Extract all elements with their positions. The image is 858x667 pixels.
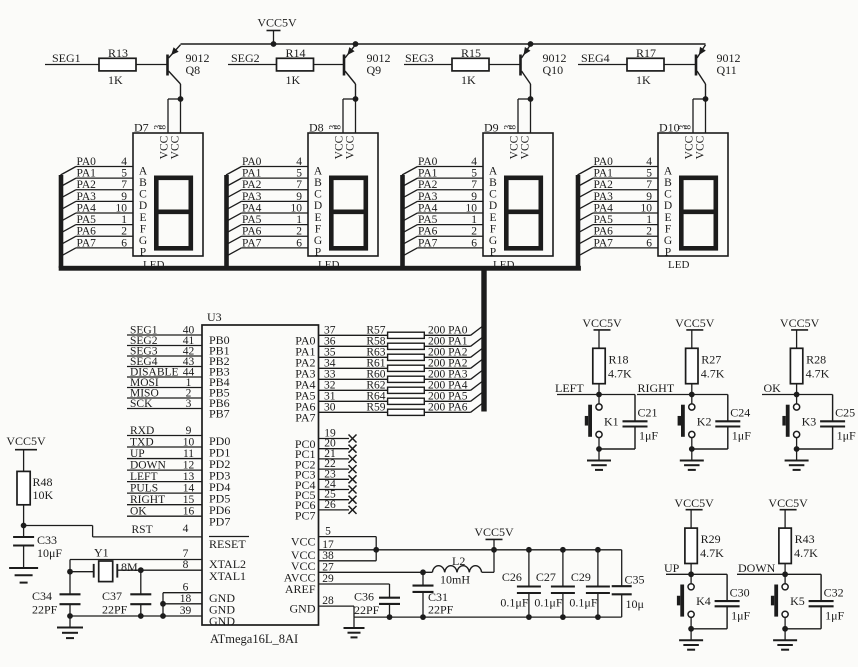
pin 18 GND [163, 603, 202, 605]
wire DOWN [737, 573, 821, 575]
svg-text:F: F [315, 223, 321, 235]
wire XTAL1 to crystal right [140, 570, 142, 594]
svg-text:VCC5V: VCC5V [257, 16, 297, 30]
switch K5 pushbutton [782, 584, 788, 590]
svg-text:C27: C27 [536, 570, 556, 584]
svg-text:6: 6 [121, 237, 127, 249]
wire R64 to bus / node 200 PA5 [424, 400, 470, 402]
wire slant PA2 to bus [471, 349, 482, 358]
svg-text:VCC: VCC [695, 135, 707, 159]
wire R61 to bus / node 200 PA2 [424, 367, 470, 369]
pin 33 (PA4) [319, 378, 388, 380]
junction dot C26 bottom [526, 614, 532, 620]
svg-text:G: G [489, 235, 497, 247]
svg-text:5: 5 [646, 168, 652, 180]
junction dot RST node [21, 523, 27, 529]
wire pin8 VCC (D10) [705, 99, 707, 133]
svg-text:1μF: 1μF [837, 429, 856, 443]
junction dot Q10 emitter on rail [528, 41, 534, 47]
wire PA3 to pin 9 (D10) [593, 200, 658, 202]
junction dot C34 rail [67, 613, 73, 619]
svg-text:10: 10 [641, 202, 653, 214]
wire rail to L2 [493, 550, 495, 573]
wire VCC5V to R29 [690, 510, 692, 528]
junction dot C27 bottom [560, 614, 566, 620]
pin 30 (PA7) [319, 411, 388, 413]
svg-text:4.7K: 4.7K [701, 366, 725, 380]
node MOSI / pin 1 (PB5) [127, 387, 202, 389]
wire R13 to Q8 base [136, 64, 167, 66]
wire PA7 to pin 6 (D8) [242, 247, 309, 249]
pin 22 (PC3) no-connect [319, 468, 350, 470]
svg-text:SEG4: SEG4 [581, 51, 610, 65]
svg-text:VCC5V: VCC5V [675, 316, 715, 330]
svg-text:10μF: 10μF [37, 546, 62, 560]
svg-text:K3: K3 [802, 414, 817, 428]
wire VCC5V to rail [273, 31, 275, 45]
svg-text:6: 6 [646, 237, 652, 249]
resistor R48 10K [17, 471, 30, 504]
capacitor C35 10u [621, 550, 623, 586]
svg-text:VCC5V: VCC5V [780, 316, 820, 330]
junction dot Q9 collector [353, 96, 359, 102]
svg-text:D8: D8 [309, 121, 324, 135]
bus PA vertical (D10) [576, 175, 581, 268]
wire R28 to node OK [796, 384, 798, 395]
svg-text:RESET: RESET [209, 537, 246, 551]
resistor R13 1K [99, 58, 136, 71]
svg-text:4: 4 [471, 156, 477, 168]
wire PA1 slant to bus (D10) [578, 178, 594, 187]
wire PA0 to pin 4 (D8) [242, 166, 309, 168]
wire PA1 to pin 5 (D10) [593, 177, 658, 179]
svg-text:7: 7 [296, 179, 302, 191]
wire R48 to RST node [23, 505, 25, 537]
svg-text:K1: K1 [604, 414, 619, 428]
wire PA4 to pin 10 (D10) [593, 212, 658, 214]
switch K2 pushbutton [689, 404, 695, 410]
svg-text:D10: D10 [659, 121, 680, 135]
wire VCC pins tie (D7) [168, 98, 181, 100]
wire PA2 slant to bus (D9) [402, 190, 418, 199]
junction dot crystal left [67, 569, 73, 575]
ground (K4) [690, 629, 692, 641]
svg-text:K5: K5 [790, 594, 805, 608]
pin 37 (PA0) [319, 334, 388, 336]
wire PA4 to pin 10 (D7) [76, 212, 133, 214]
svg-text:LED: LED [668, 259, 689, 271]
junction dot GND bracket pin39 [160, 613, 166, 619]
wire PA0 to pin 4 (D9) [418, 166, 484, 168]
svg-text:4: 4 [296, 156, 302, 168]
seven-segment glyph (D8) [331, 178, 366, 249]
wire VCC bracket [375, 537, 377, 561]
wire node to switch K5 [784, 574, 786, 583]
wire R18 to node LEFT [598, 384, 600, 395]
wire PA7 slant to bus (D7) [61, 248, 77, 257]
wire PA6 to pin 2 (D8) [242, 235, 309, 237]
svg-text:Q10: Q10 [543, 63, 564, 77]
svg-text:9: 9 [646, 191, 652, 203]
svg-text:K2: K2 [697, 414, 712, 428]
junction dot Q9 emitter on rail [353, 41, 359, 47]
wire pin3 VCC (D9) [517, 99, 519, 133]
wire ground rail (crystal) [69, 604, 71, 616]
svg-text:VCC: VCC [345, 135, 357, 159]
pin 35 (PA2) [319, 356, 388, 358]
pin 25 (PC6) no-connect [319, 499, 350, 501]
junction dot AVCC/C31 [420, 569, 426, 575]
wire PA2 to pin 7 (D8) [242, 189, 309, 191]
svg-text:SEG3: SEG3 [405, 51, 434, 65]
switch K3 pushbutton [794, 404, 800, 410]
ground (K5) [784, 629, 786, 641]
svg-text:10mH: 10mH [440, 573, 470, 587]
wire PA3 to pin 9 (D9) [418, 200, 484, 202]
wire VCC pins tie (D8) [343, 98, 356, 100]
svg-text:10K: 10K [33, 488, 54, 502]
svg-text:15: 15 [183, 494, 195, 506]
svg-text:LEFT: LEFT [555, 381, 584, 395]
display D7 box [133, 133, 203, 256]
svg-text:10μ: 10μ [626, 597, 644, 611]
junction dot K2 bottom [689, 446, 695, 452]
svg-text:2: 2 [121, 226, 127, 238]
wire PA7 slant to bus (D10) [578, 248, 594, 257]
wire PA4 slant to bus (D7) [61, 213, 77, 222]
svg-text:10: 10 [291, 202, 303, 214]
svg-text:L2: L2 [452, 554, 465, 568]
svg-text:28: 28 [322, 595, 334, 607]
svg-text:4: 4 [183, 523, 189, 535]
svg-text:E: E [314, 212, 321, 224]
svg-text:R48: R48 [33, 475, 53, 489]
transistor Q9 9012 PNP [343, 55, 346, 76]
junction dot Q11 collector [703, 96, 709, 102]
wire PA5 to pin 1 (D7) [76, 224, 133, 226]
svg-text:P: P [665, 247, 671, 259]
svg-text:A: A [139, 165, 148, 177]
junction dot C31 rail [420, 614, 426, 620]
svg-text:C36: C36 [354, 590, 374, 604]
svg-text:E: E [139, 212, 146, 224]
pin 23 (PC4) no-connect [319, 478, 350, 480]
capacitor C37 22PF [130, 593, 151, 595]
wire node to switch K2 [691, 395, 693, 404]
svg-text:R29: R29 [701, 532, 721, 546]
wire K4 to ground [690, 618, 692, 629]
svg-text:RIGHT: RIGHT [638, 381, 675, 395]
svg-text:D: D [314, 200, 322, 212]
svg-text:8: 8 [334, 125, 344, 130]
junction dot C26 top [526, 547, 532, 553]
svg-text:VCC: VCC [291, 535, 316, 549]
node MISO / pin 2 (PB6) [127, 397, 202, 399]
svg-text:22PF: 22PF [102, 603, 128, 617]
wire pin27 AVCC to L2 [319, 571, 433, 573]
svg-text:1: 1 [646, 214, 652, 226]
wire UP [666, 573, 727, 575]
capacitor C26 0.1μF [528, 550, 530, 587]
junction dot C27 top [560, 547, 566, 553]
wire PA4 to pin 10 (D9) [418, 212, 484, 214]
svg-text:R18: R18 [609, 352, 629, 366]
svg-text:D9: D9 [484, 121, 499, 135]
node DISABLE / pin 44 (PB4) [127, 376, 202, 378]
wire PA2 to pin 7 (D9) [418, 189, 484, 191]
svg-text:E: E [664, 212, 671, 224]
node RXD / pin 9 (PD0) [127, 435, 202, 437]
wire pin3 VCC (D8) [342, 99, 344, 133]
wire PA2 slant to bus (D7) [61, 190, 77, 199]
pin 36 (PA1) [319, 345, 388, 347]
junction dot C37 rail [138, 613, 144, 619]
svg-text:1μF: 1μF [731, 608, 750, 622]
svg-text:DOWN: DOWN [130, 460, 166, 472]
svg-text:PA7: PA7 [295, 411, 315, 425]
junction dot Q8 collector [178, 96, 184, 102]
wire PA1 to pin 5 (D9) [418, 177, 484, 179]
switch K4 pushbutton [688, 584, 694, 590]
svg-text:XTAL1: XTAL1 [209, 569, 246, 583]
capacitor C33 10uF [13, 536, 34, 538]
svg-text:2: 2 [296, 226, 302, 238]
wire SEG1 to R13 [45, 64, 99, 66]
svg-text:C: C [314, 189, 322, 201]
svg-text:VCC5V: VCC5V [768, 496, 808, 510]
svg-text:2: 2 [646, 226, 652, 238]
svg-text:9: 9 [186, 425, 192, 437]
svg-text:D: D [664, 200, 672, 212]
power rail VCC5V (top) [181, 43, 706, 45]
wire PA6 to pin 2 (D7) [76, 235, 133, 237]
svg-text:1K: 1K [636, 73, 651, 87]
wire K2 to ground [691, 438, 693, 449]
node SEG3 / pin 42 (PB2) [127, 355, 202, 357]
wire RIGHT [637, 394, 728, 396]
wire PA5 slant to bus (D9) [402, 225, 418, 234]
bus PA vertical (D8) [224, 175, 229, 268]
wire R59 to bus / node 200 PA6 [424, 411, 470, 413]
svg-text:12: 12 [183, 460, 195, 472]
wire R27 to node RIGHT [691, 384, 693, 395]
wire slant PA5 to bus [471, 393, 482, 402]
svg-text:2: 2 [471, 226, 477, 238]
svg-text:C: C [664, 189, 672, 201]
svg-text:11: 11 [183, 448, 194, 460]
svg-text:LEFT: LEFT [130, 471, 157, 483]
wire PA4 slant to bus (D9) [402, 213, 418, 222]
junction dot Q10 collector [528, 96, 534, 102]
svg-text:22PF: 22PF [354, 603, 380, 617]
wire PA0 slant to bus (D9) [402, 167, 418, 176]
wire PA0 to pin 4 (D10) [593, 166, 658, 168]
wire R17 to Q11 base [664, 64, 695, 66]
svg-text:SCK: SCK [130, 398, 153, 410]
svg-text:VCC: VCC [520, 135, 532, 159]
wire slant PA6 to bus [471, 404, 482, 413]
svg-text:G: G [664, 235, 672, 247]
resistor R28 4.7K [790, 348, 802, 383]
wire pin17 VCC [319, 549, 377, 551]
svg-text:R43: R43 [795, 532, 815, 546]
svg-text:C37: C37 [102, 589, 122, 603]
wire OK [762, 394, 833, 396]
capacitor C27 0.1μF [562, 550, 564, 587]
bus PA vertical (D9) [400, 175, 405, 268]
svg-text:G: G [314, 235, 322, 247]
svg-text:C26: C26 [502, 570, 522, 584]
svg-text:R59: R59 [366, 401, 385, 413]
wire VCC5V to R28 [796, 330, 798, 348]
svg-text:8: 8 [159, 125, 169, 130]
wire node to switch K4 [690, 574, 692, 583]
svg-text:C: C [139, 189, 147, 201]
svg-text:RIGHT: RIGHT [130, 494, 165, 506]
wire K1 to ground [598, 438, 600, 449]
wire R62 to bus / node 200 PA4 [424, 389, 470, 391]
transistor Q8 9012 PNP [166, 55, 169, 76]
svg-text:A: A [489, 165, 498, 177]
wire R58 to bus / node 200 PA1 [424, 345, 470, 347]
pin 19 (PC0) no-connect [319, 438, 350, 440]
svg-text:1K: 1K [108, 73, 123, 87]
svg-text:29: 29 [322, 573, 334, 585]
svg-text:9: 9 [121, 191, 127, 203]
wire pin38 VCC [319, 560, 377, 562]
wire PA3 to pin 9 (D7) [76, 200, 133, 202]
wire LEFT [557, 394, 635, 396]
display D10 box [658, 133, 728, 256]
wire PA7 slant to bus (D8) [226, 248, 242, 257]
wire PA1 to pin 5 (D7) [76, 177, 133, 179]
pin 8 XTAL1 [117, 569, 202, 571]
svg-text:27: 27 [322, 561, 334, 573]
svg-text:8: 8 [684, 125, 694, 130]
svg-text:18: 18 [180, 593, 192, 605]
svg-text:AREF: AREF [285, 582, 316, 596]
wire PA2 to pin 7 (D7) [76, 189, 133, 191]
wire GND bracket [162, 593, 164, 616]
svg-text:RST: RST [132, 524, 153, 536]
svg-text:13: 13 [183, 471, 195, 483]
seven-segment glyph (D9) [506, 178, 541, 249]
wire PA3 slant to bus (D10) [578, 201, 594, 210]
svg-text:4.7K: 4.7K [806, 366, 830, 380]
svg-text:39: 39 [180, 605, 192, 617]
wire SEG2 to R14 [228, 64, 277, 66]
svg-text:R27: R27 [701, 352, 721, 366]
svg-text:1K: 1K [461, 73, 476, 87]
wire R43 to node DOWN [784, 564, 786, 575]
capacitor C30 1uF [726, 574, 728, 601]
junction dot UP [688, 571, 694, 577]
inductor L2 10mH [432, 566, 481, 573]
wire PA0 to pin 4 (D7) [76, 166, 133, 168]
pin 26 (PC7) no-connect [319, 509, 350, 511]
svg-text:22PF: 22PF [32, 603, 58, 617]
wire slant PA0 to bus [471, 327, 482, 336]
svg-text:6: 6 [183, 582, 189, 594]
svg-text:8M: 8M [121, 560, 138, 574]
bus PA vertical (D7) [59, 175, 64, 268]
wire pin8 VCC (D9) [530, 99, 532, 133]
svg-text:PULS: PULS [130, 483, 158, 495]
node UP / pin 11 (PD2) [127, 458, 202, 460]
wire PA5 to pin 1 (D9) [418, 224, 484, 226]
svg-text:200 PA6: 200 PA6 [428, 402, 468, 414]
svg-text:1: 1 [471, 214, 477, 226]
wire pin3 VCC (D10) [692, 99, 694, 133]
display D9 box [483, 133, 553, 256]
svg-text:R17: R17 [636, 46, 656, 60]
wire VCC5V to R27 [691, 330, 693, 348]
wire PA5 slant to bus (D7) [61, 225, 77, 234]
svg-text:GND: GND [290, 602, 316, 616]
resistor R18 4.7K [593, 348, 605, 383]
wire pin5 VCC [319, 536, 377, 538]
capacitor C32 1uF [820, 574, 822, 601]
svg-text:C21: C21 [638, 406, 658, 420]
wire XTAL2 to crystal left [69, 560, 71, 595]
wire PA5 to pin 1 (D8) [242, 224, 309, 226]
svg-text:C33: C33 [37, 533, 57, 547]
svg-text:5: 5 [121, 168, 127, 180]
wire PA6 to pin 2 (D10) [593, 235, 658, 237]
svg-text:1: 1 [296, 214, 302, 226]
pin 24 (PC5) no-connect [319, 489, 350, 491]
wire SEG4 to R17 [578, 64, 627, 66]
svg-text:P: P [315, 247, 321, 259]
wire PA3 slant to bus (D9) [402, 201, 418, 210]
bus PA drop to resistor bank [481, 268, 486, 412]
svg-text:SEG1: SEG1 [52, 51, 81, 65]
svg-text:Q9: Q9 [367, 63, 382, 77]
svg-text:C35: C35 [625, 573, 645, 587]
svg-text:8: 8 [183, 559, 189, 571]
svg-text:DOWN: DOWN [738, 561, 776, 575]
svg-text:1μF: 1μF [825, 608, 844, 622]
svg-text:7: 7 [646, 179, 652, 191]
svg-text:R13: R13 [108, 46, 128, 60]
node RIGHT / pin 15 (PD6) [127, 504, 202, 506]
svg-text:SEG2: SEG2 [231, 51, 260, 65]
wire pin8 VCC (D8) [355, 99, 357, 133]
wire SEG3 to R15 [404, 64, 452, 66]
capacitor C21 1uF [634, 395, 636, 422]
wire PA3 slant to bus (D7) [61, 201, 77, 210]
svg-text:C: C [489, 189, 497, 201]
junction dot crystal right [138, 567, 144, 573]
wire K5 to ground [784, 618, 786, 629]
wire PA2 slant to bus (D8) [226, 190, 242, 199]
junction dot GND bracket pin18 [160, 601, 166, 607]
svg-text:P: P [490, 247, 496, 259]
junction dot VCC5V rail [491, 547, 497, 553]
wire VCC5V to rail [493, 539, 495, 549]
resistor R43 4.7K [779, 528, 791, 563]
svg-text:1: 1 [121, 214, 127, 226]
wire PA5 slant to bus (D10) [578, 225, 594, 234]
wire PA4 slant to bus (D10) [578, 213, 594, 222]
svg-text:E: E [489, 212, 496, 224]
svg-text:9: 9 [471, 191, 477, 203]
wire VCC pins tie (D9) [518, 98, 531, 100]
svg-text:C30: C30 [730, 585, 750, 599]
svg-text:R14: R14 [286, 46, 306, 60]
wire PA0 slant to bus (D8) [226, 167, 242, 176]
wire PA1 slant to bus (D8) [226, 178, 242, 187]
